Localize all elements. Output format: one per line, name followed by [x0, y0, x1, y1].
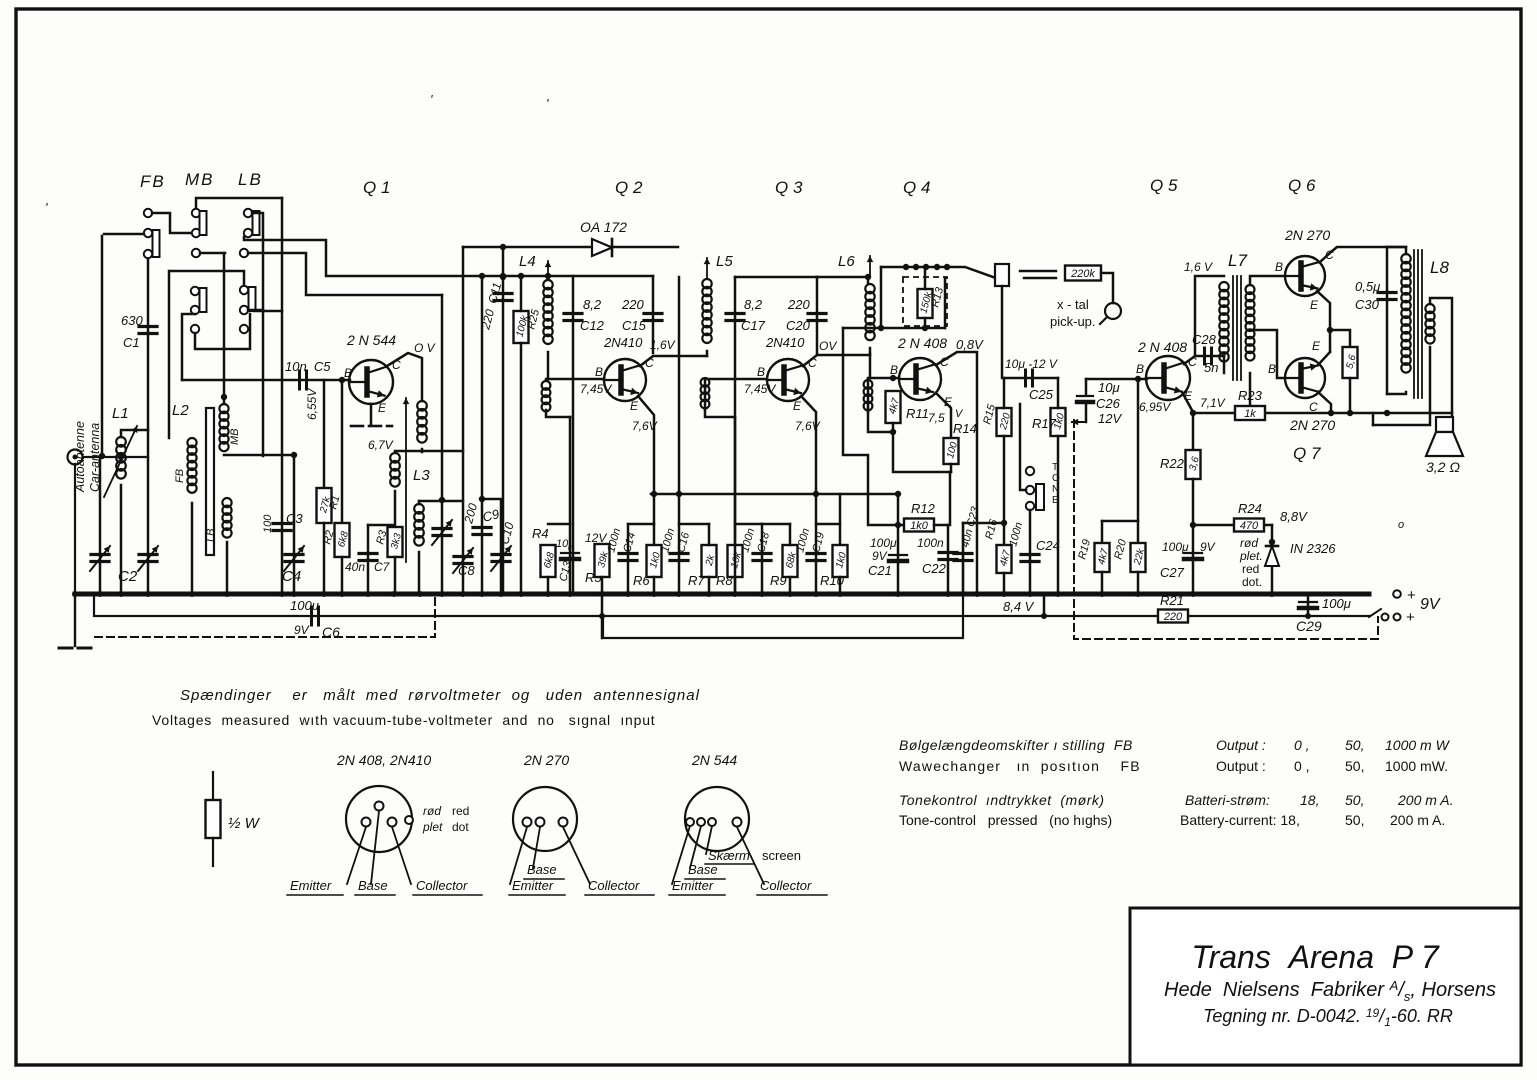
resistor R3 3k3	[394, 491, 397, 527]
svg-text:7,1V: 7,1V	[1200, 396, 1226, 410]
capacitor C6 100u	[310, 607, 313, 625]
svg-text:C12: C12	[580, 318, 605, 333]
svg-text:1k: 1k	[1244, 408, 1256, 420]
wire tone rail	[963, 522, 1004, 525]
wire speaker drop	[1451, 413, 1454, 417]
transistor Q6 2N270	[1285, 256, 1325, 296]
resistor R22 3,6	[1186, 450, 1201, 479]
capacitor C20 220	[808, 312, 826, 315]
wire Q6 emitter	[1317, 291, 1330, 352]
svg-text:C24: C24	[1036, 538, 1060, 553]
wire R11 bottom	[893, 423, 951, 472]
svg-text:E: E	[1052, 495, 1059, 506]
svg-text:screen: screen	[762, 848, 801, 863]
resistor R15 220	[997, 408, 1012, 436]
capacitor C5	[298, 371, 301, 389]
resistor R20 22k	[1137, 378, 1140, 543]
capacitor C3	[273, 522, 291, 525]
transistor Q4 2N408	[899, 358, 941, 400]
resistor 5,6 feedback	[1330, 330, 1350, 347]
svg-text:T: T	[1052, 462, 1058, 473]
coil L4	[547, 261, 549, 278]
svg-text:Hede Nielsens Fabriker A/s,: Hede Nielsens Fabriker A/s, Horsens	[1164, 978, 1496, 1004]
pinout 2N408 leads	[347, 827, 366, 884]
battery minus line wire	[94, 594, 1369, 616]
svg-text:B: B	[344, 366, 352, 380]
wire FB stub	[104, 233, 144, 236]
svg-text:Trans Arena P 7: Trans Arena P 7	[1191, 939, 1439, 975]
svg-text:N: N	[1052, 484, 1059, 495]
svg-text:Q 6: Q 6	[1288, 176, 1316, 195]
svg-text:red: red	[1242, 562, 1259, 576]
svg-text:Q 4: Q 4	[903, 178, 930, 197]
coil L3 bottom	[418, 501, 421, 504]
svg-text:5n: 5n	[1204, 360, 1218, 375]
wire Q5 collector	[1184, 276, 1224, 364]
transistor Q5 2N408	[1146, 356, 1190, 400]
svg-text:Q 7: Q 7	[1293, 444, 1321, 463]
capacitor C15 220	[644, 312, 662, 315]
wire Q6 collector	[1320, 247, 1406, 262]
svg-text:R10: R10	[820, 573, 845, 588]
svg-text:L3: L3	[413, 467, 430, 484]
svg-text:100μ: 100μ	[1322, 596, 1351, 611]
svg-text:3,2 Ω: 3,2 Ω	[1426, 459, 1460, 475]
wire Q3 box to L6	[817, 276, 868, 279]
wire Q2 collector to L5	[640, 356, 707, 366]
wire MB coil bottom bracket	[224, 454, 294, 457]
wire FB link	[152, 213, 191, 233]
AVC return wire	[603, 523, 963, 638]
switch lower contacts a	[191, 287, 199, 295]
svg-text:Emitter: Emitter	[290, 878, 332, 893]
svg-text:Output :: Output :	[1216, 758, 1266, 774]
wire Q4 collector	[936, 352, 977, 594]
svg-text:2N 544: 2N 544	[691, 752, 737, 768]
svg-text:R11: R11	[906, 406, 929, 421]
svg-text:10μ -12 V: 10μ -12 V	[1005, 357, 1058, 371]
wire L8 primary bottom	[1387, 392, 1406, 394]
svg-text:C25: C25	[1029, 387, 1054, 402]
wire Q5 emitter	[1182, 392, 1193, 412]
svg-text:LB: LB	[238, 170, 263, 189]
svg-text:C8: C8	[458, 563, 475, 578]
ground stub wire	[74, 594, 76, 646]
transformer L8 core	[1413, 250, 1415, 398]
svg-text:200 m A.: 200 m A.	[1397, 792, 1454, 808]
svg-text:2N410: 2N410	[765, 335, 805, 350]
wire C4 top	[291, 452, 297, 458]
coil L5	[706, 258, 708, 278]
IF can Q3 box	[735, 276, 817, 279]
resistor R5 39k	[595, 544, 610, 577]
svg-text:C27: C27	[1160, 565, 1185, 580]
svg-text:0,8V: 0,8V	[956, 337, 984, 352]
capacitor C22 100n	[947, 525, 950, 594]
svg-text:dot: dot	[452, 820, 469, 834]
svg-text:2 N 408: 2 N 408	[1137, 339, 1187, 355]
svg-text:Q 5: Q 5	[1150, 176, 1178, 195]
svg-text:R14: R14	[953, 421, 977, 436]
ground dashes Q1	[351, 425, 363, 428]
wire jack down	[1001, 286, 1004, 378]
svg-text:E: E	[793, 399, 802, 413]
wire FB contact column	[147, 258, 150, 594]
svg-text:220: 220	[1163, 611, 1183, 623]
ground bus wire	[75, 592, 1369, 597]
pinout circle 2N408	[346, 786, 412, 852]
svg-text:Battery-current: 18,: Battery-current: 18,	[1180, 812, 1300, 828]
coil L3 mid	[390, 453, 400, 463]
wire LB coil bottom	[226, 542, 229, 594]
capacitor C9 200	[481, 276, 484, 594]
svg-text:R9: R9	[770, 573, 787, 588]
diode OA172	[592, 239, 612, 256]
switch FB contacts	[144, 209, 152, 217]
svg-text:x - tal: x - tal	[1057, 297, 1089, 312]
svg-text:Batteri-strøm:: Batteri-strøm:	[1185, 792, 1270, 808]
svg-text:1000 m W: 1000 m W	[1385, 737, 1451, 753]
svg-text:2N 408, 2N410: 2N 408, 2N410	[336, 752, 431, 768]
svg-text:Skærm: Skærm	[708, 848, 750, 863]
svg-text:1k0: 1k0	[910, 520, 929, 532]
wire Q4 base	[868, 377, 899, 380]
pickup leads	[1020, 270, 1056, 272]
wire osc route	[441, 295, 444, 594]
svg-text:OA 172: OA 172	[580, 219, 627, 235]
resistor 220k pickup	[1065, 266, 1101, 281]
resistor R1 27k	[323, 380, 326, 488]
wire L3 link	[395, 450, 463, 453]
wire LB lower	[248, 309, 263, 312]
svg-text:B: B	[890, 363, 898, 377]
svg-text:R23: R23	[1238, 388, 1263, 403]
svg-text:2 N 408: 2 N 408	[897, 335, 947, 351]
svg-text:L8: L8	[1430, 258, 1449, 277]
resistor R17 1k0	[1051, 408, 1066, 436]
svg-text:6,55V: 6,55V	[305, 388, 319, 420]
svg-text:C28: C28	[1192, 332, 1217, 347]
svg-text:C1: C1	[123, 335, 140, 350]
capacitor C14 100n	[628, 523, 654, 526]
transistor Q7 2N270	[1285, 358, 1325, 398]
wire Q1 collector	[387, 353, 422, 401]
trimmer on C8 line	[433, 527, 451, 530]
L2 core	[206, 408, 214, 555]
battery switch	[1369, 609, 1381, 617]
wire bus link 1044	[1043, 594, 1046, 616]
coil L6 secondary	[864, 380, 873, 389]
transistor Q1 2N544	[349, 360, 393, 404]
wire Q3 base	[705, 378, 767, 381]
resistor R10 1k0	[816, 523, 840, 526]
transformer L8 primary	[1401, 254, 1410, 263]
svg-text:7,45V: 7,45V	[580, 382, 612, 396]
wire Q2 emitter	[638, 396, 654, 545]
wire LB down	[252, 213, 263, 456]
tone switch	[1026, 467, 1034, 475]
capacitor C25	[1004, 377, 1058, 380]
capacitor C1 630	[139, 325, 157, 328]
capacitor C8	[419, 500, 463, 503]
switch MB contacts	[192, 209, 200, 217]
svg-text:C20: C20	[786, 318, 811, 333]
wire lower link	[195, 314, 250, 349]
svg-text:50,: 50,	[1345, 758, 1364, 774]
svg-text:rød: rød	[1240, 536, 1258, 550]
svg-text:Tonekontrol ındtrykket (mørk: Tonekontrol ındtrykket (mørk)	[899, 792, 1105, 808]
coil L6	[869, 256, 871, 276]
svg-text:220: 220	[787, 297, 810, 312]
antenna jack	[68, 450, 83, 465]
svg-text:L6: L6	[838, 253, 855, 270]
capacitor C27 100u	[1184, 552, 1202, 554]
svg-text:0,5μ: 0,5μ	[1355, 279, 1380, 294]
svg-text:2N 270: 2N 270	[1284, 227, 1330, 243]
svg-text:C21: C21	[868, 563, 892, 578]
svg-text:½ W: ½ W	[228, 815, 261, 832]
wire Q3 emitter	[801, 396, 816, 494]
svg-text:R22: R22	[1160, 456, 1185, 471]
svg-text:C2: C2	[118, 568, 138, 585]
svg-text:Collector: Collector	[416, 878, 468, 893]
pinout 2N270 leads	[510, 827, 527, 884]
svg-text:2N 270: 2N 270	[1289, 417, 1335, 433]
resistor R14 100	[944, 438, 959, 464]
svg-text:pick-up.: pick-up.	[1050, 314, 1096, 329]
wire antenna to bus	[74, 464, 76, 594]
svg-text:L5: L5	[716, 253, 733, 270]
svg-text:8,8V: 8,8V	[1280, 509, 1308, 524]
resistor R8 10k	[734, 417, 737, 545]
ground symbol	[59, 647, 72, 650]
transistor Q3 2N410	[767, 359, 809, 401]
capacitor C4	[285, 553, 303, 556]
wire row2 route	[248, 253, 442, 295]
svg-text:470: 470	[1240, 520, 1259, 532]
svg-text:MB: MB	[229, 429, 241, 446]
svg-text:200 m A.: 200 m A.	[1390, 812, 1445, 828]
svg-text:Q 3: Q 3	[775, 178, 803, 197]
svg-text:100μ: 100μ	[870, 536, 897, 550]
svg-text:E: E	[630, 399, 639, 413]
svg-text:C6: C6	[322, 624, 340, 640]
wire Q2 base	[546, 378, 604, 381]
svg-text:dot.: dot.	[1242, 575, 1262, 589]
wire FB coil bottom	[191, 503, 194, 594]
svg-text:R12: R12	[911, 501, 936, 516]
wire L8 sec bottom	[1373, 347, 1430, 425]
resistor R19 4k7	[1102, 520, 1138, 523]
wire route LB to Q2 box	[244, 237, 653, 276]
resistor R9 68k	[762, 523, 790, 526]
coil L3 top	[417, 401, 427, 411]
svg-text:0 ,: 0 ,	[1294, 737, 1310, 753]
bus junction dots	[72, 591, 78, 597]
svg-text:C22: C22	[922, 561, 947, 576]
svg-text:6,7V: 6,7V	[368, 438, 394, 452]
wire L8 primary top	[1387, 247, 1406, 254]
svg-text:C15: C15	[622, 318, 647, 333]
svg-text:R8: R8	[716, 573, 733, 588]
svg-text:18,: 18,	[1300, 792, 1319, 808]
svg-text:9V: 9V	[872, 549, 888, 563]
svg-text:Emitter: Emitter	[672, 878, 714, 893]
wire tone switch wiper	[1020, 404, 1026, 490]
wire L6 sec bottom to R11	[868, 408, 893, 432]
svg-text:B: B	[1275, 260, 1283, 274]
L3 tuning arrow	[405, 398, 407, 562]
capacitor C26 10u	[1085, 379, 1088, 394]
transformer L7 primary	[1219, 282, 1228, 291]
svg-text:C4: C4	[282, 568, 301, 585]
wire L8 sec top	[1430, 298, 1452, 413]
svg-text:plet: plet	[422, 820, 443, 834]
svg-text:red: red	[452, 804, 469, 818]
svg-text:E: E	[1310, 298, 1319, 312]
svg-text:FB: FB	[140, 172, 166, 191]
dashed box right	[1074, 420, 1378, 639]
transistor Q2 2N410	[604, 359, 646, 401]
svg-text:L2: L2	[172, 402, 189, 419]
svg-text:7,45V: 7,45V	[744, 382, 776, 396]
svg-text:R17: R17	[1032, 416, 1057, 431]
capacitor C24 100n	[1029, 510, 1032, 594]
svg-text:C30: C30	[1355, 297, 1380, 312]
svg-text:12V: 12V	[1098, 411, 1122, 426]
svg-text:Tegning nr. D-0042. 19/1-60. R: Tegning nr. D-0042. 19/1-60. RR	[1203, 1006, 1453, 1029]
svg-text:FB: FB	[174, 469, 186, 483]
resistor R21 220	[1158, 610, 1188, 623]
dashed box R13	[903, 277, 947, 326]
svg-text:8,4 V: 8,4 V	[1003, 599, 1035, 614]
svg-text:50,: 50,	[1345, 812, 1364, 828]
svg-text:o: o	[1398, 519, 1404, 531]
svg-text:50,: 50,	[1345, 737, 1364, 753]
svg-text:9V: 9V	[1420, 596, 1441, 613]
title block frame	[1130, 908, 1521, 1065]
switch lower contacts b	[191, 306, 199, 314]
wire L1 top	[121, 430, 148, 437]
switch lower bracket	[170, 271, 244, 286]
svg-text:1,6V: 1,6V	[650, 338, 676, 352]
coil L5 secondary	[701, 378, 710, 387]
wire AGC rail	[881, 267, 993, 277]
svg-text:O: O	[1052, 473, 1060, 484]
wire C3 column	[254, 310, 282, 313]
svg-text:100μ: 100μ	[290, 598, 319, 613]
svg-text:+: +	[1407, 587, 1416, 604]
svg-text:B: B	[1136, 362, 1144, 376]
svg-text:0 ,: 0 ,	[1294, 758, 1310, 774]
resistor R24 470	[1234, 519, 1264, 532]
svg-text:40n: 40n	[345, 560, 365, 574]
svg-text:Emitter: Emitter	[512, 878, 554, 893]
dashed AGC box left	[95, 594, 435, 637]
svg-text:100: 100	[262, 514, 274, 533]
svg-text:2N410: 2N410	[603, 335, 643, 350]
resistor R7 2k	[679, 523, 709, 526]
svg-text:+: +	[1406, 609, 1415, 626]
svg-text:Collector: Collector	[588, 878, 640, 893]
svg-text:Q 1: Q 1	[363, 178, 390, 197]
svg-text:10n C5: 10n C5	[285, 359, 331, 374]
coil L1	[116, 437, 126, 447]
svg-text:Voltages measured wıth vacuu: Voltages measured wıth vacuum-tube-voltm…	[152, 712, 656, 728]
battery plus terminal	[1393, 590, 1401, 598]
wire Q3 collector to L6	[803, 355, 870, 366]
resistor R4 6k8	[548, 523, 570, 526]
svg-text:7,5: 7,5	[928, 411, 945, 425]
svg-text:R7: R7	[688, 573, 705, 588]
transformer L8 secondary	[1425, 304, 1434, 313]
capacitor C16 100n	[678, 277, 681, 594]
IF can Q2 box	[572, 276, 575, 594]
svg-text:E: E	[378, 401, 387, 415]
capacitor C19 100n	[815, 494, 818, 594]
coil L4 secondary	[542, 381, 551, 390]
wire Q5 base line	[1086, 378, 1147, 381]
svg-text:C17: C17	[741, 318, 766, 333]
wire Q7 collector	[1318, 392, 1331, 413]
wire Q4 emitter	[937, 394, 951, 438]
svg-text:R6: R6	[633, 573, 650, 588]
svg-text:B: B	[1268, 362, 1276, 376]
capacitor C10	[482, 499, 501, 594]
svg-text:6,95V: 6,95V	[1139, 400, 1171, 414]
svg-text:10μ: 10μ	[1098, 380, 1120, 395]
coil L2 LB	[222, 498, 231, 507]
svg-text:IN 2326: IN 2326	[1290, 541, 1336, 556]
svg-text:Q 2: Q 2	[615, 178, 643, 197]
capacitor C2 gang a	[99, 457, 102, 594]
resistor R11 4k7	[886, 391, 901, 423]
svg-text:LB: LB	[205, 529, 217, 542]
svg-text:2 N 544: 2 N 544	[346, 332, 396, 348]
resistor R2 6k8	[341, 380, 344, 523]
wire L7 tap to Q7	[1254, 330, 1285, 378]
svg-text:plet.: plet.	[1239, 549, 1263, 563]
plug circle	[1105, 303, 1121, 319]
jack x-tal	[995, 264, 1009, 286]
capacitor C13 10u	[569, 417, 572, 594]
capacitor C11 220	[502, 247, 505, 594]
wire R24 line	[1193, 524, 1272, 527]
svg-text:Output :: Output :	[1216, 737, 1266, 753]
wire MB bracket column down	[281, 198, 284, 594]
svg-text:C7: C7	[374, 560, 391, 574]
svg-text:Spændinger er målt med: Spændinger er målt med rørvoltmeter og u…	[180, 687, 700, 704]
L1 tuning arrow	[104, 426, 137, 497]
svg-text:Base: Base	[688, 862, 718, 877]
svg-text:rød: rød	[423, 804, 441, 818]
capacitor C12 8,2	[564, 312, 582, 315]
diode line OA172	[463, 246, 678, 249]
svg-text:Tone-control pressed (no h: Tone-control pressed (no hıghs)	[899, 812, 1112, 828]
svg-text:Collector: Collector	[760, 878, 812, 893]
transformer L7 secondary	[1246, 285, 1255, 294]
wire L7 sec top to Q6	[1250, 276, 1285, 285]
capacitor C28 5n	[1195, 355, 1224, 358]
svg-text:OV: OV	[819, 339, 837, 353]
svg-text:8,2: 8,2	[583, 297, 602, 312]
wire Q7 emitter	[1318, 352, 1330, 365]
switch LB contacts	[244, 209, 252, 217]
svg-text:100μ: 100μ	[1162, 540, 1189, 554]
svg-text:Base: Base	[527, 862, 557, 877]
svg-text:2N 270: 2N 270	[523, 752, 569, 768]
svg-text:100n: 100n	[917, 536, 944, 550]
